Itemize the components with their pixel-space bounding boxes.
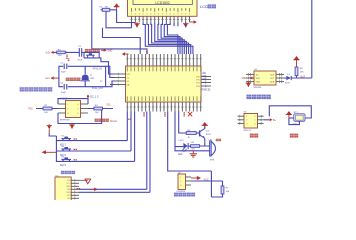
switch pins [238, 115, 264, 125]
push button S1 [86, 53, 94, 58]
svg-text:3V3: 3V3 [67, 195, 70, 197]
svg-text:GND: GND [256, 82, 261, 84]
temp sensor U2 body [178, 174, 186, 190]
MCU bottom pins [126, 102, 202, 112]
label bus mode cjk [95, 119, 109, 122]
serial header U3 body [55, 177, 71, 201]
wire VCC to LCD pin2 [117, 10, 136, 23]
wire LCD data bus D5 [161, 22, 182, 54]
MCU right pins [201, 75, 211, 87]
resistor R4 contrast [102, 8, 110, 11]
LED D2 [182, 143, 189, 152]
power arrow reset [51, 51, 55, 54]
wire reset button loop [84, 52, 99, 58]
svg-text:EEPROM: EEPROM [60, 119, 70, 121]
svg-text:10K: 10K [226, 191, 230, 193]
wire LCD pin15 stub [185, 22, 187, 26]
wire I2C node stub [87, 96, 89, 98]
power arrow serial [91, 188, 98, 192]
svg-text:SDA: SDA [270, 81, 275, 84]
resistor R1 [57, 51, 65, 54]
wire LCD data bus D2 [151, 22, 189, 54]
svg-text:VDD: VDD [256, 78, 261, 80]
resistor R7 [221, 186, 224, 194]
wire LCD data bus D0 [143, 22, 193, 54]
wire bottom rail [175, 147, 210, 151]
svg-text:5.0V: 5.0V [46, 52, 51, 54]
capacitor C1 [79, 48, 81, 57]
wire EEPROM SCL [88, 108, 113, 110]
ground arrow reset [101, 49, 107, 52]
capacitor C2 [64, 64, 67, 70]
wire temp pullup [211, 181, 222, 197]
ground stem buttons [48, 129, 50, 133]
svg-text:XTAL_OUT: XTAL_OUT [92, 87, 104, 90]
svg-text:RXD: RXD [66, 192, 71, 194]
transistor Q1 [200, 129, 205, 139]
svg-text:10K: 10K [58, 55, 62, 57]
MCU U1 body [126, 66, 202, 102]
power arrow VDD pressure [250, 77, 255, 80]
ground arrow pressure [246, 82, 252, 88]
red net label button 2 [74, 149, 78, 150]
wire EEPROM bottom loop [58, 109, 102, 124]
diode D1 [284, 76, 294, 80]
ground arrow EEPROM [69, 124, 75, 130]
red net label bottom-left pins [128, 119, 132, 120]
pressure sensor U4 body [254, 71, 276, 85]
wire pressure out node [292, 76, 312, 78]
wire reset net vertical [91, 0, 93, 49]
push button S3 [61, 147, 71, 151]
svg-text:VCC: VCC [66, 183, 71, 185]
svg-text:LCD1602: LCD1602 [155, 1, 169, 5]
svg-text:SCL: SCL [106, 105, 111, 107]
wire xtal out to MCU [106, 81, 115, 87]
svg-text:P20: P20 [29, 108, 34, 110]
svg-text:KEY3: KEY3 [60, 165, 67, 167]
svg-text:TXD: TXD [67, 189, 71, 191]
svg-text:30pF: 30pF [61, 92, 66, 94]
wire base [196, 132, 199, 134]
svg-text:12M: 12M [90, 78, 94, 80]
wire button rail [55, 136, 57, 162]
net label on pin5 wire [146, 51, 148, 52]
label LCD module cjk [208, 4, 216, 8]
ground at LCD pin14 [183, 22, 189, 28]
LCD display window [133, 0, 192, 5]
wire battery left [289, 117, 294, 119]
ground arrow above buttons [47, 124, 52, 129]
power arrow temp VCC [191, 176, 201, 180]
MCU top pins [126, 54, 202, 66]
svg-text:Nonv: Nonv [110, 119, 118, 123]
node I2C diamond [87, 95, 90, 98]
resistor R3 [94, 107, 103, 110]
MCU right pin net label [202, 82, 205, 83]
wire R4 to LCD pin1 [106, 11, 132, 28]
wire LCD pin12 stub [173, 22, 175, 26]
svg-text:LED: LED [178, 154, 183, 156]
wire reset node [54, 51, 86, 53]
push button S2 [61, 137, 71, 141]
wire reset row to MCU top pin5 [92, 49, 147, 54]
MCU right pin net label [202, 79, 205, 80]
wire button 3 row [56, 112, 134, 162]
wire EA pin stub [110, 84, 115, 86]
resistor R6 [191, 145, 200, 148]
label reset circuit cjk [85, 49, 100, 53]
svg-text:OUT: OUT [300, 75, 306, 78]
wire serial TXD [79, 112, 147, 190]
label crystal circuit cjk [66, 78, 81, 81]
svg-text:30pF: 30pF [61, 71, 66, 73]
wire button 2 row [56, 112, 131, 152]
red net label serial [77, 188, 81, 189]
wire LED row [175, 112, 210, 147]
wire to MCU top pin3 [103, 28, 141, 54]
svg-text:SW-123: SW-123 [243, 130, 251, 132]
red net label button 3 [74, 159, 78, 160]
crystal Y1 [81, 75, 90, 81]
LCD pin-name text row [131, 8, 190, 14]
wire R4 left stub [101, 9, 103, 11]
label switch cjk [250, 134, 258, 138]
wire switch mid pin [264, 119, 270, 121]
svg-text:10K: 10K [95, 112, 99, 114]
svg-text:10uF: 10uF [77, 59, 82, 61]
junction reset node [66, 52, 68, 54]
wire LCD pin13 stub [177, 22, 179, 26]
wire LCD pin1 stub [131, 22, 133, 28]
wire battery bottom loop [289, 118, 300, 125]
wire gnd to rail [49, 134, 56, 137]
svg-text:GND: GND [45, 78, 50, 80]
resistor R5 [186, 132, 196, 135]
red no-connect cross [188, 112, 192, 117]
wire serial RXD [79, 112, 150, 193]
svg-text:5V0: 5V0 [67, 180, 70, 182]
svg-text:10K: 10K [44, 112, 48, 114]
label minimal system cjk [20, 87, 53, 91]
resistor R8 [295, 67, 298, 76]
svg-text:GND: GND [107, 51, 112, 53]
cap gap bottom [63, 86, 68, 88]
red net label under pin P2.0 [143, 112, 145, 116]
MCU right pin net label [202, 76, 205, 77]
label pressure sensor cjk [247, 95, 271, 100]
power arrow LCD backlight [190, 20, 197, 23]
label serial debug cjk [61, 171, 75, 174]
svg-text:DS18B20: DS18B20 [177, 191, 186, 193]
wire emitter node [204, 138, 206, 146]
svg-text:10K: 10K [300, 71, 304, 73]
svg-text:AT89C52: AT89C52 [201, 89, 212, 92]
ground symbol serial [79, 179, 91, 184]
power arrow VCC contrast [114, 3, 120, 10]
svg-text:LED1: LED1 [179, 140, 185, 142]
red net label button 1 [74, 138, 78, 139]
red net label under pin P2.6 [184, 112, 186, 116]
wire temp data row [191, 180, 223, 182]
wire LCD data bus D1 [147, 22, 191, 54]
wire MCU to temp data [168, 112, 212, 182]
power arrow pressure [293, 56, 299, 67]
wire LCD data bus D7 [167, 22, 177, 54]
resistor R2 [43, 107, 52, 110]
power arrow VCC to MCU pin40 [122, 52, 129, 55]
svg-text:LCD: LCD [200, 4, 208, 9]
push button S4 [61, 157, 71, 161]
power arrow transistor [202, 122, 208, 129]
ground symbol alarm [190, 151, 197, 157]
capacitor C3 [64, 84, 67, 90]
temp sensor pins [180, 177, 191, 187]
svg-text:GND: GND [66, 186, 71, 188]
wire long vertical right [311, 0, 313, 78]
label alarm cjk [216, 139, 221, 142]
cap gap top [63, 65, 68, 67]
ground at LCD pin1 [134, 22, 140, 28]
red net label below reset node [66, 55, 68, 59]
wire LCD data bus D4 [158, 22, 184, 54]
net label on pin5 wire 2 [146, 52, 148, 53]
svg-text:I2C_1.0: I2C_1.0 [90, 95, 99, 98]
battery BT1 [294, 114, 305, 122]
label power cjk [290, 134, 298, 138]
svg-text:MS5534: MS5534 [254, 87, 263, 89]
EEPROM U6 body [66, 100, 81, 117]
MCU inner pin names rows [127, 67, 201, 101]
wire MCU to base resistor [179, 112, 187, 134]
red net label above crystal [68, 58, 70, 61]
serial header pins [66, 179, 79, 200]
svg-text:RST: RST [127, 74, 132, 76]
switch S5 body [244, 114, 258, 129]
svg-text:XTAL_IN: XTAL_IN [93, 67, 102, 70]
power arrow switch B+ [269, 118, 272, 121]
wire xtal in to MCU [106, 66, 115, 77]
MCU right pin net label [202, 73, 205, 74]
EEPROM pins [58, 104, 88, 115]
wire LCD data bus D6 [164, 22, 180, 54]
wire switch to battery [269, 106, 311, 118]
wire collector [204, 126, 206, 129]
wire crystal loop [59, 66, 106, 86]
red net label under pin P2.4 [164, 112, 166, 116]
wire crystal branch [84, 66, 86, 86]
wire EEPROM top loop [58, 99, 88, 104]
speaker LS1 [210, 141, 216, 156]
LCD module U5 body [128, 0, 198, 16]
pressure sensor pins [246, 73, 284, 84]
wire R4 right to VCC [110, 9, 117, 11]
wire button 1 row [56, 112, 127, 141]
wire LCD data bus D3 [155, 22, 187, 54]
LCD pins 1-16 [130, 16, 190, 22]
wire EEPROM SDA [36, 108, 58, 110]
ground arrow crystal [51, 76, 59, 79]
label temp sensor cjk [174, 193, 195, 197]
svg-text:VDD: VDD [241, 78, 246, 80]
power arrow battery [286, 111, 292, 118]
wire reset to MCU RST [99, 58, 115, 74]
MCU left pins [115, 73, 126, 86]
svg-text:SCK: SCK [270, 74, 275, 76]
svg-text:SPK: SPK [210, 160, 215, 162]
power arrow buttons [42, 150, 57, 154]
